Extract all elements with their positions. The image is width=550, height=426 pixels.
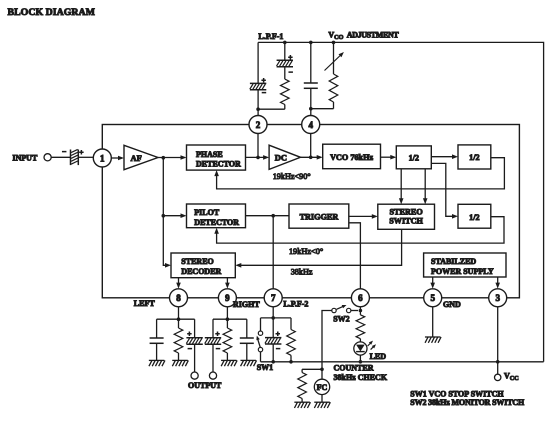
wire pin 9 down to network: [226, 307, 228, 319]
resistor R2: [174, 328, 183, 353]
wire top bus to capacitor C2: [284, 42, 286, 60]
svg-text:OUTPUT: OUTPUT: [188, 381, 222, 390]
node junction pin 7 network: [271, 316, 275, 320]
svg-text:−: −: [216, 344, 220, 353]
wire LPF-1 bottom link col3-col4: [311, 108, 334, 110]
svg-text:FC: FC: [317, 383, 328, 392]
svg-text:VCO 76kHz: VCO 76kHz: [330, 153, 373, 162]
wire junction to FC meter: [321, 369, 323, 379]
input terminal circle: [44, 154, 51, 161]
svg-text:LEFT: LEFT: [134, 299, 156, 308]
wire rail to resistor R3: [226, 319, 228, 328]
ground below FC: [314, 402, 330, 408]
svg-text:SW1: SW1: [257, 363, 273, 372]
block PILOT DETECTOR: [187, 204, 246, 228]
switch SW2 blade: [337, 306, 345, 310]
wire TRIGGER to pin 6: [349, 223, 361, 289]
svg-text:STEREO: STEREO: [181, 257, 213, 266]
meter FC circle: [314, 379, 329, 394]
ground below R6: [294, 402, 310, 408]
left output terminal circle: [191, 372, 198, 379]
wire C5 to left output terminal: [194, 344, 196, 372]
LED D1 circle: [354, 342, 367, 355]
switch SW1 blade: [257, 338, 260, 348]
wire R6 top lead: [301, 369, 303, 372]
arrowhead into pin 8: [176, 283, 181, 289]
svg-text:STABILZED: STABILZED: [431, 257, 476, 266]
wire R2 to ground: [178, 353, 180, 360]
node junction pin 9 network: [226, 317, 230, 321]
wire junction down to pin 7: [272, 216, 274, 289]
svg-text:AF: AF: [131, 153, 142, 163]
svg-text:1: 1: [100, 153, 105, 163]
pin 9 circle: [218, 289, 236, 307]
wire AF junction down to PILOT DETECTOR and STEREO DECODER: [163, 158, 169, 266]
svg-text:STEREO: STEREO: [389, 207, 422, 216]
wire bottom Vcc bus y=362: [261, 361, 544, 363]
ground below C7: [240, 360, 256, 366]
wire pin 5 to ground: [432, 307, 434, 337]
svg-text:1/2: 1/2: [469, 153, 479, 162]
svg-text:3: 3: [495, 293, 500, 303]
wire TRIGGER to STEREO SWITCH: [349, 215, 376, 217]
arrowhead SW1 blade: [256, 336, 259, 341]
LED light arrow A: [368, 342, 372, 346]
svg-text:7: 7: [271, 293, 276, 303]
capacitor C-in (electrolytic input coupling): [71, 149, 79, 165]
svg-text:−: −: [276, 344, 280, 353]
wire C2 to resistor R1: [284, 67, 286, 79]
resistor R5 below pin 6: [356, 315, 365, 339]
node junction top bus col4: [332, 41, 336, 45]
node junction Vcc bus: [496, 360, 500, 364]
op-amp DC amplifier: [269, 145, 300, 169]
resistor R3: [223, 328, 232, 353]
pin 4 circle: [302, 116, 320, 134]
node junction pin4 riser on wire: [309, 156, 313, 160]
arrowhead into PHASE DETECTOR: [181, 155, 187, 160]
wire AF output to PHASE DETECTOR: [158, 157, 184, 159]
arrowhead LED light B: [372, 344, 376, 348]
arrowhead into DC amp: [263, 155, 269, 160]
svg-text:DETECTOR: DETECTOR: [194, 218, 239, 227]
wire junction to SW2: [351, 310, 358, 312]
capacitor C4: [150, 338, 164, 343]
node junction pin2 riser on wire: [256, 156, 260, 160]
wire STEREO DECODER right output to pin 9: [226, 278, 228, 287]
wire pin 8 down to network: [178, 307, 180, 319]
svg-text:+: +: [187, 329, 191, 338]
svg-text:PHASE: PHASE: [196, 150, 223, 159]
svg-text:38kHz: 38kHz: [291, 268, 313, 277]
wire power supply to pin 5: [432, 277, 434, 287]
wire SW1 to bottom bus: [260, 352, 262, 362]
pin 2 circle: [249, 116, 267, 134]
wire Vcc top bus y=42 and right-side drop to bottom bus: [258, 42, 543, 361]
block STEREO DECODER: [171, 253, 235, 278]
node junction pin 7 riser: [271, 214, 275, 218]
wire rail to resistor R2: [178, 319, 180, 328]
wire DC amp to VCO: [301, 156, 321, 158]
wire pin 7 network top rail: [261, 317, 292, 319]
right output terminal circle: [209, 372, 216, 379]
wire junction to resistor R6: [302, 368, 322, 370]
switch SW1 top contact: [258, 331, 262, 335]
svg-text:8: 8: [176, 293, 181, 303]
wire pin 3 down to Vcc junction: [497, 307, 499, 374]
node junction C8 bottom bus: [271, 360, 275, 364]
wire top bus to variable resistor VR1: [333, 42, 335, 74]
svg-text:5: 5: [430, 293, 435, 303]
node junction LPF-1 bottom left: [256, 107, 260, 111]
capacitor C6 (electrolytic, right output): [205, 338, 222, 344]
ground below R2: [172, 360, 188, 366]
node junction LPF-1 bottom right: [309, 107, 313, 111]
wire branch to PILOT DETECTOR: [163, 215, 184, 217]
wire U1 to divider U2: [431, 156, 456, 158]
arrowhead LED light A: [369, 341, 373, 345]
wire R4 to bottom bus: [290, 355, 292, 362]
wire pin 6 down to junction: [359, 307, 361, 315]
wire rail to capacitor C5: [194, 319, 196, 338]
wire C7 to ground: [246, 343, 248, 360]
svg-text:−: −: [289, 67, 293, 76]
wire VCO to divider U1: [381, 156, 395, 158]
wire pin 1 to AF amp: [111, 157, 122, 159]
arrowhead into divider U3: [452, 214, 458, 219]
wire divider U1 output A to STEREO SWITCH: [400, 169, 402, 202]
wire LPF-1 bottom link col1-col2: [258, 108, 285, 110]
wire pin 2 riser to DC amp input: [257, 134, 259, 158]
arrowhead feedback into PILOT DETECTOR bottom: [214, 228, 219, 234]
block VCO 76kHz: [323, 144, 381, 169]
LED light arrow B: [371, 346, 375, 350]
svg-text:9: 9: [225, 293, 230, 303]
svg-text:−: −: [262, 88, 266, 97]
svg-text:L.P.F-2: L.P.F-2: [283, 300, 308, 309]
wire R1 to bottom link: [284, 105, 286, 110]
svg-text:1/2: 1/2: [469, 213, 479, 222]
wire pin 7 down to network: [272, 307, 274, 318]
wire pin 9 network top rail: [213, 318, 247, 320]
wire VR1 to bottom link: [333, 102, 335, 109]
wire C4 to ground: [156, 343, 158, 360]
arrowhead into STEREO SWITCH top A: [399, 198, 404, 204]
terminal Vcc circle: [495, 374, 501, 380]
wire power supply to pin 3: [497, 277, 499, 287]
svg-text:TRIGGER: TRIGGER: [300, 212, 339, 221]
ground below C4: [149, 360, 165, 366]
arrowhead into pin 3: [495, 283, 500, 289]
wire junction to pin 4: [310, 109, 312, 116]
wire input terminal to coupling capacitor: [51, 156, 70, 158]
wire pin 4 riser to DC amp output: [310, 134, 312, 158]
svg-text:+: +: [262, 76, 266, 85]
arrowhead SW2 blade: [342, 305, 347, 308]
wire divider U1 output B to STEREO SWITCH: [424, 169, 426, 202]
pin 8 circle: [170, 289, 188, 307]
wire U3 output feedback to PILOT DETECTOR (19kHz 0deg): [217, 217, 504, 243]
svg-text:+: +: [276, 329, 280, 338]
node junction R4 bottom bus: [289, 360, 293, 364]
svg-text:DC: DC: [275, 153, 287, 163]
wire junction to pin 2: [257, 109, 259, 116]
svg-text:−: −: [188, 344, 192, 353]
arrowhead VR1: [339, 52, 344, 57]
wire LED to bottom bus: [359, 355, 361, 362]
IC package outline rectangle: [102, 125, 519, 298]
arrowhead into STEREO SWITCH: [372, 214, 378, 219]
capacitor C7: [240, 338, 254, 343]
block divider U1 1/2: [396, 146, 431, 169]
switch SW1 bottom contact: [258, 347, 262, 351]
wire top bus to capacitor C3: [310, 42, 312, 83]
wire R5 to LED: [359, 339, 361, 342]
arrowhead into AF amp: [118, 156, 124, 161]
wire rail to switch SW1: [260, 318, 262, 331]
resistor R4: [287, 330, 296, 356]
resistor R6: [298, 373, 307, 399]
svg-text:LED: LED: [370, 352, 387, 361]
svg-text:L.P.F-1: L.P.F-1: [258, 32, 283, 41]
op-amp AF amplifier: [124, 145, 158, 169]
arrowhead into pin 9: [225, 283, 230, 289]
wire C8 to bottom bus: [272, 344, 274, 362]
svg-text:2: 2: [256, 120, 261, 130]
node junction LED bottom bus: [359, 360, 363, 364]
arrowhead into STEREO SWITCH top B: [423, 198, 428, 204]
wire rail to capacitor C6: [212, 319, 214, 338]
wire PILOT DETECTOR to TRIGGER: [246, 215, 290, 217]
svg-text:GND: GND: [443, 300, 461, 309]
svg-text:DETECTOR: DETECTOR: [196, 160, 241, 169]
wire VR1 arrow (variable): [325, 54, 342, 71]
wire U1 lower output to divider U3: [431, 163, 456, 216]
pin 1 circle: [93, 149, 111, 167]
arrowhead into divider U1: [390, 155, 396, 160]
wire U2 output feedback to PHASE DETECTOR: [217, 158, 505, 189]
switch SW2 left contact: [332, 308, 336, 312]
svg-text:1/2: 1/2: [409, 154, 419, 163]
svg-text:6: 6: [358, 293, 363, 303]
svg-text:INPUT: INPUT: [12, 153, 38, 162]
pin 3 circle: [489, 289, 507, 307]
arrowhead into pin 5: [430, 283, 435, 289]
node junction pin 8 network: [177, 317, 181, 321]
arrowhead into VCO: [317, 155, 323, 160]
switch SW2 right contact: [347, 308, 351, 312]
arrowhead into STEREO DECODER left: [165, 263, 171, 268]
pin 6 circle: [351, 289, 369, 307]
wire rail to capacitor C7: [246, 319, 248, 338]
svg-text:SW2: SW2: [333, 315, 349, 324]
ground below R3: [221, 360, 237, 366]
block divider U3 1/2: [458, 204, 491, 228]
capacitor C3: [304, 83, 318, 88]
wire R3 to ground: [226, 353, 228, 360]
wire FC to ground: [321, 395, 323, 403]
wire rail to capacitor C8: [272, 318, 274, 338]
svg-text:SWITCH: SWITCH: [389, 216, 423, 225]
svg-text:POWER SUPPLY: POWER SUPPLY: [431, 267, 494, 276]
block STABILZED POWER SUPPLY: [424, 253, 506, 277]
LED D1 cathode bar: [356, 351, 365, 353]
node junction pin 6: [359, 309, 363, 313]
svg-text:+: +: [288, 52, 292, 61]
arrowhead into divider U2: [452, 154, 458, 159]
block divider U2 1/2: [458, 145, 491, 169]
LED D1 triangle: [356, 345, 365, 352]
wire R6 to ground: [301, 399, 303, 403]
pin 7 circle: [264, 289, 282, 307]
block TRIGGER: [289, 204, 349, 228]
svg-text:+: +: [215, 329, 219, 338]
capacitor C1 (electrolytic, pin 2): [250, 83, 266, 89]
svg-text:38kHz CHECK: 38kHz CHECK: [334, 373, 388, 382]
wire STEREO DECODER left output to pin 8: [178, 278, 180, 287]
arrowhead into PILOT DETECTOR: [181, 213, 187, 218]
capacitor C5 (electrolytic, left output): [186, 338, 203, 344]
svg-text:4: 4: [308, 120, 313, 130]
svg-text:RIGHT: RIGHT: [233, 300, 260, 309]
resistor VR1 (VCO adjustment): [329, 74, 338, 102]
svg-text:PILOT: PILOT: [194, 208, 220, 217]
wire C1 to junction: [257, 90, 259, 109]
wire PHASE DETECTOR to DC amp: [246, 156, 268, 158]
wire C6 to right output terminal: [212, 344, 214, 372]
svg-text:DECODER: DECODER: [181, 267, 221, 276]
wire rail to resistor R4: [290, 318, 292, 330]
svg-text:19kHz<90°: 19kHz<90°: [273, 172, 311, 181]
svg-text:BLOCK DIAGRAM: BLOCK DIAGRAM: [8, 7, 95, 18]
capacitor C8 (electrolytic LPF-2): [265, 338, 282, 344]
arrowhead feedback into PHASE DETECTOR bottom: [214, 170, 219, 176]
svg-text:19kHz<0°: 19kHz<0°: [289, 247, 323, 256]
svg-text:SW2 38kHz MONITOR SWITCH: SW2 38kHz MONITOR SWITCH: [410, 398, 525, 407]
node junction top bus col2: [283, 41, 287, 45]
capacitor C2 (electrolytic): [277, 60, 294, 66]
wire capacitor to pin 1: [78, 156, 93, 158]
wire STEREO SWITCH to STEREO DECODER (38kHz): [237, 229, 401, 265]
node junction pilot branch: [162, 214, 166, 218]
wire LPF-1 column1 from top bus to capacitor C1: [257, 42, 259, 83]
node junction top bus col3: [309, 41, 313, 45]
block STEREO SWITCH: [378, 204, 435, 229]
wire rail to capacitor C4: [156, 319, 158, 338]
block PHASE DETECTOR: [187, 145, 246, 170]
arrowhead 38kHz into STEREO DECODER: [235, 263, 241, 268]
ground below pin 5: [425, 337, 441, 343]
wire pin 8 network top rail: [157, 318, 195, 320]
svg-text:−: −: [62, 147, 66, 156]
node junction FC branch: [320, 368, 324, 372]
pin 5 circle: [424, 289, 442, 307]
svg-text:+: +: [79, 148, 83, 157]
svg-text:COUNTER: COUNTER: [334, 364, 374, 373]
wire C3 to junction: [310, 88, 312, 108]
resistor R1: [281, 79, 290, 104]
wire SW2 left to FC branch: [322, 311, 332, 370]
node junction AF output: [162, 156, 166, 160]
